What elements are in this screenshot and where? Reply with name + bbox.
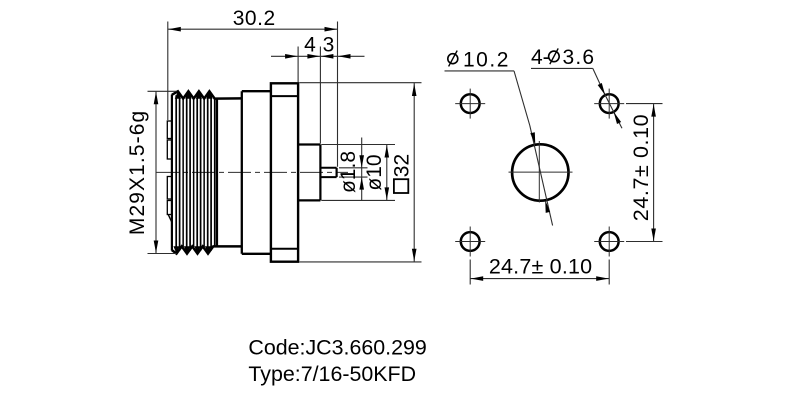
extension lines 24.7 bottom — [470, 260, 609, 285]
dimension 4 and 3 — [271, 34, 365, 59]
leader 4-dia 3.6 — [531, 68, 622, 128]
body top — [242, 90, 271, 92]
svg-text:4-: 4- — [531, 46, 550, 69]
rear insulator cylinder — [298, 145, 320, 201]
dimension M29X1.5-6g — [126, 91, 158, 253]
svg-text:M29X1.5-6g: M29X1.5-6g — [126, 110, 149, 235]
extension line right (30.2 / 3) — [337, 22, 339, 167]
extension line left (30.2) — [167, 22, 169, 121]
svg-text:24.7± 0.10: 24.7± 0.10 — [489, 255, 592, 279]
front face of coupling nut — [171, 95, 173, 251]
svg-text:32: 32 — [390, 154, 413, 177]
mounting hole bottom-right — [594, 227, 624, 257]
dimension dia 1.8 — [337, 138, 364, 201]
dimension square 32 — [390, 83, 416, 262]
type text — [248, 362, 416, 386]
center hole horizontal centerline — [509, 171, 573, 173]
svg-text:Type:7/16-50KFD: Type:7/16-50KFD — [248, 362, 416, 386]
extension lines 24.7 right — [626, 104, 663, 242]
thread bottom outline (zigzag) and neck bottom — [172, 246, 242, 253]
leader dia 10.2 — [445, 71, 530, 126]
label 4-dia 3.6 — [531, 46, 595, 69]
mounting hole top-left — [455, 89, 485, 119]
svg-text:4: 4 — [304, 34, 316, 57]
front slot notches — [167, 121, 172, 223]
svg-text:24.7± 0.10: 24.7± 0.10 — [629, 114, 653, 221]
body bottom — [242, 253, 271, 255]
mounting hole top-right — [594, 89, 624, 119]
extension line cylinder end (4/3) — [319, 47, 321, 144]
svg-text:3: 3 — [323, 34, 335, 57]
extension lines square 32 — [300, 83, 422, 262]
svg-text:Code:JC3.660.299: Code:JC3.660.299 — [248, 336, 426, 360]
svg-text:30.2: 30.2 — [233, 7, 276, 30]
extension lines M29 thread — [148, 91, 177, 253]
code text — [248, 336, 426, 360]
extension line flange right (4) — [297, 47, 299, 83]
diameter line through center hole — [530, 126, 553, 226]
label dia 10.2 — [448, 48, 510, 71]
thread flank lines — [173, 91, 214, 253]
extension lines pin dia 1.8 — [339, 168, 368, 177]
thread top outline (zigzag) and neck top — [172, 91, 242, 98]
dimension 24.7 right — [629, 104, 656, 242]
extension lines cylinder dia 10 — [322, 145, 396, 201]
mounting hole bottom-left — [455, 227, 485, 257]
centerline of connector side view — [156, 171, 348, 173]
body left edge — [241, 91, 243, 254]
svg-text:3.6: 3.6 — [563, 46, 596, 69]
center hole vertical centerline — [538, 141, 540, 203]
center contact pin — [320, 168, 336, 177]
mounting flange side view — [271, 83, 298, 261]
svg-text:ø1.8: ø1.8 — [337, 151, 360, 193]
thread end face — [216, 98, 218, 246]
center hole dia 10.2 — [512, 144, 568, 200]
svg-text:10.2: 10.2 — [463, 48, 510, 71]
svg-text:ø10: ø10 — [363, 154, 386, 190]
dimension 30.2 — [168, 7, 338, 32]
dimension dia 10 — [363, 145, 389, 201]
dimension 24.7 bottom — [470, 255, 609, 281]
